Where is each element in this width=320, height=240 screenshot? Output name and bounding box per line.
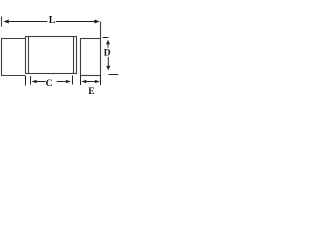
svg-text:D: D xyxy=(104,49,111,59)
svg-text:E: E xyxy=(88,87,94,97)
svg-text:C: C xyxy=(46,79,53,89)
svg-text:L: L xyxy=(49,15,56,26)
